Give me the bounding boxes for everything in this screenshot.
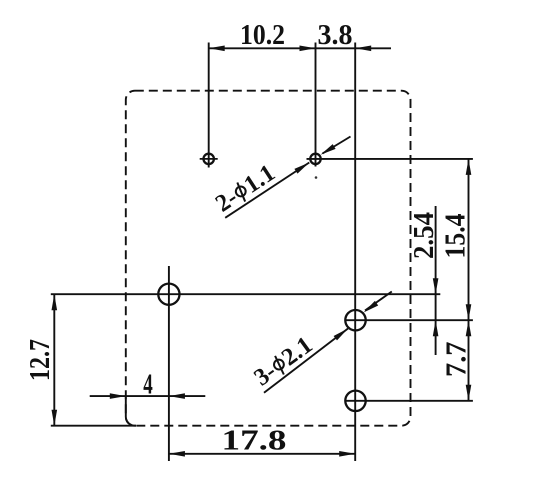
svg-text:17.8: 17.8 [222, 425, 287, 457]
svg-text:12.7: 12.7 [24, 339, 56, 381]
svg-text:3.8: 3.8 [318, 19, 353, 51]
svg-text:2.54: 2.54 [408, 212, 440, 259]
svg-text:4: 4 [143, 368, 153, 400]
svg-text:10.2: 10.2 [240, 19, 285, 51]
svg-text:15.4: 15.4 [440, 214, 472, 259]
svg-text:7.7: 7.7 [441, 342, 473, 378]
